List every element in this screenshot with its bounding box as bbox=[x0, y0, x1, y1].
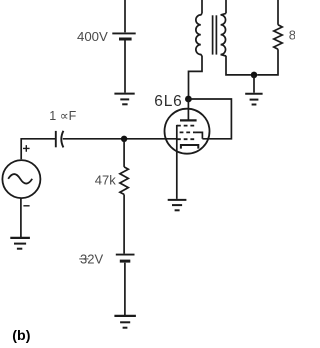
node grid/47k junction bbox=[121, 136, 127, 142]
capacitor 1uF bbox=[56, 131, 64, 148]
wire ac source to capacitor bbox=[21, 139, 55, 159]
transformer T1 primary winding bbox=[196, 13, 202, 56]
label plus bbox=[23, 145, 30, 152]
wire resistor bottom to right node bbox=[257, 49, 278, 75]
grid g3 (dashed) bbox=[177, 125, 196, 127]
wire secondary bottom to right node bbox=[226, 56, 251, 75]
svg-text:8Ω: 8Ω bbox=[289, 27, 295, 42]
label minus bbox=[23, 205, 29, 207]
grid g2 (dashed) bbox=[180, 131, 196, 133]
wire capacitor to grid bbox=[63, 138, 177, 140]
wire ac source to ground bbox=[20, 198, 22, 237]
wire screen grid step bbox=[195, 132, 202, 138]
tube 6L6 envelope bbox=[165, 109, 210, 154]
plate lead bbox=[187, 99, 189, 120]
wire transformer primary top lead bbox=[201, 0, 203, 13]
wire screen-to-plate loop bbox=[188, 99, 231, 139]
grid g1 (dashed) bbox=[177, 138, 196, 140]
wire speaker resistor top lead bbox=[277, 0, 279, 25]
wire transformer secondary top lead bbox=[225, 0, 227, 13]
resistor 47k bbox=[120, 167, 128, 195]
ground (under 400V battery) bbox=[114, 94, 134, 105]
wire battery to ground bbox=[124, 41, 126, 93]
battery 32V bbox=[116, 255, 135, 262]
wire battery 32V to ground bbox=[124, 263, 126, 315]
node secondary/speaker junction bbox=[251, 72, 258, 79]
wire node to ground bbox=[253, 75, 255, 93]
svg-text:400V: 400V bbox=[77, 29, 108, 44]
wire B+ rail top to battery bbox=[124, 0, 126, 32]
transformer core bbox=[213, 15, 217, 54]
battery 400V bbox=[112, 33, 135, 39]
svg-text:6L6: 6L6 bbox=[154, 93, 182, 110]
artifact line through 3 bbox=[79, 258, 88, 260]
ground (speaker return) bbox=[245, 94, 262, 105]
plate bbox=[180, 119, 197, 121]
wire primary bottom to plate node bbox=[189, 56, 203, 96]
ground (source) bbox=[10, 238, 30, 249]
ground (cathode) bbox=[168, 200, 187, 210]
svg-text:(b): (b) bbox=[12, 328, 30, 344]
ground (bias battery) bbox=[114, 316, 135, 328]
node plate/screen junction bbox=[185, 96, 192, 103]
svg-text:1 ∝F: 1 ∝F bbox=[49, 109, 76, 123]
svg-text:47k: 47k bbox=[95, 172, 116, 187]
resistor 8ohm bbox=[274, 25, 282, 49]
wire 47k to battery 32V bbox=[123, 194, 125, 253]
wire node to 47k bbox=[123, 139, 125, 167]
sine wave bbox=[8, 174, 32, 184]
cathode bbox=[181, 145, 198, 149]
ac source V1 bbox=[2, 160, 40, 198]
transformer T1 secondary winding bbox=[221, 13, 226, 56]
suppressor/cathode rail to ground bbox=[176, 125, 178, 199]
